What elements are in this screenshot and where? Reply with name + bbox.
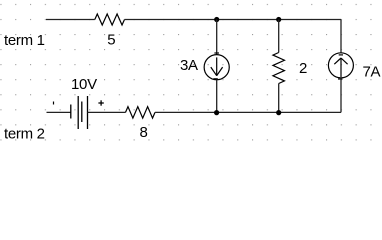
plus sign of 3A source bbox=[214, 52, 219, 54]
wire right branch lower bbox=[340, 78, 342, 113]
node junction dot bottom A bbox=[214, 110, 219, 115]
svg-text:10V: 10V bbox=[71, 76, 97, 93]
plus sign of 7A source bbox=[338, 78, 343, 80]
resistor 5 bbox=[95, 14, 125, 25]
svg-text:3A: 3A bbox=[180, 57, 198, 74]
minus sign of 7A source bbox=[339, 54, 343, 56]
svg-text:7A: 7A bbox=[363, 63, 381, 80]
current source 3A bbox=[204, 55, 229, 80]
wire top-right from resistor 5 to top-right corner bbox=[125, 19, 342, 21]
wire 3A branch lower bbox=[216, 80, 218, 113]
svg-text:5: 5 bbox=[107, 32, 115, 49]
node junction dot top A bbox=[214, 17, 219, 22]
plus sign of battery bbox=[98, 100, 103, 105]
wire 3A branch upper bbox=[216, 20, 218, 55]
wire 2-ohm branch upper bbox=[278, 20, 280, 53]
wire bottom-right from resistor 8 to bottom-right corner bbox=[155, 111, 341, 113]
svg-text:2: 2 bbox=[299, 60, 307, 77]
resistor 8 bbox=[126, 107, 156, 119]
minus sign of 3A source bbox=[213, 78, 217, 80]
wire top-left from term 1 to resistor 5 bbox=[46, 19, 95, 21]
wire from battery to resistor 8 bbox=[88, 111, 126, 113]
resistor 2 bbox=[273, 53, 285, 84]
svg-text:term 2: term 2 bbox=[4, 126, 45, 143]
battery V 10V bbox=[71, 96, 88, 129]
minus sign of battery bbox=[53, 102, 55, 105]
svg-text:8: 8 bbox=[140, 124, 148, 141]
current source 7A bbox=[328, 53, 353, 78]
node junction dot bottom B bbox=[276, 110, 281, 115]
svg-text:term 1: term 1 bbox=[4, 32, 45, 49]
wire 2-ohm branch lower bbox=[278, 84, 280, 113]
wire right branch upper bbox=[340, 20, 342, 53]
wire bottom-left from term 2 to battery bbox=[47, 111, 71, 113]
node junction dot top B bbox=[276, 17, 281, 22]
